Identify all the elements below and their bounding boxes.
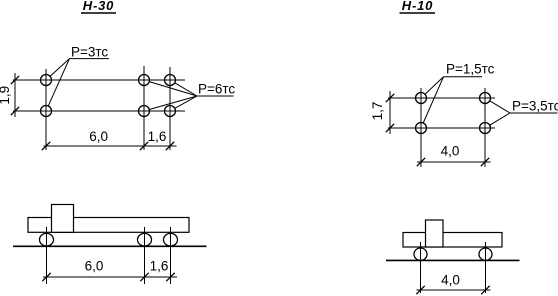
- tick at 46.5,277: [42, 273, 50, 281]
- base dimension line H-10 plan: [417, 161, 491, 163]
- svg-text:6,0: 6,0: [85, 259, 104, 274]
- svg-text:Р=3,5тс: Р=3,5тс: [512, 99, 558, 114]
- front wheel H-30 truck: [40, 233, 54, 246]
- tick at top of 1,7: [386, 94, 394, 102]
- leader label P=1,5tc: [423, 61, 494, 123]
- wheel column line front H-10: [420, 88, 422, 167]
- tick at 485,162: [481, 158, 489, 166]
- wheel circle front-bottom H-10: [416, 123, 427, 134]
- axle line bottom H-30: [13, 110, 185, 112]
- front wheel H-10 truck: [414, 248, 427, 260]
- tick at 144,146: [140, 142, 148, 150]
- base dimension line H-10 truck: [417, 289, 491, 291]
- leader label P=3,5tc: [490, 99, 558, 126]
- truck body H-10: [403, 233, 502, 248]
- tick at 170.5,277: [166, 273, 174, 281]
- svg-text:Р=3тс: Р=3тс: [71, 44, 108, 59]
- svg-text:6,0: 6,0: [89, 129, 108, 144]
- svg-text:Р=1,5тс: Р=1,5тс: [446, 61, 495, 76]
- axle line bottom H-10: [388, 127, 495, 129]
- svg-text:1,6: 1,6: [148, 129, 167, 144]
- axle line top H-30: [13, 79, 185, 81]
- extension line rear wheel H-10 truck: [485, 242, 487, 293]
- leader label P=3tc: [48, 44, 109, 106]
- header H-10: [400, 0, 436, 13]
- svg-text:Н-30: Н-30: [83, 0, 114, 13]
- ground line H-10 truck: [386, 259, 520, 261]
- base dimension line H-30 plan: [44, 145, 177, 147]
- svg-text:4,0: 4,0: [441, 273, 460, 288]
- wheel column line middle H-30: [143, 66, 145, 150]
- tick at 170,146: [166, 142, 174, 150]
- wheel circle rear-bottom H-10: [480, 123, 491, 134]
- rear wheel H-10 truck: [479, 248, 492, 260]
- wheel circle rear-top H-30: [165, 75, 176, 86]
- tick at 485.5,290: [481, 286, 489, 294]
- base dimension line H-30 truck: [43, 276, 177, 278]
- extension line middle wheel H-30 truck: [144, 227, 146, 284]
- tick at 421,162: [417, 158, 425, 166]
- truck body H-30: [28, 218, 189, 233]
- tick at 420.5,290: [416, 286, 424, 294]
- extension line front wheel H-10 truck: [420, 242, 422, 293]
- svg-text:Н-10: Н-10: [402, 0, 433, 13]
- wheel circle rear-top H-10: [480, 93, 491, 104]
- wheel circle middle-top H-30: [139, 75, 150, 86]
- extension line front wheel H-30 truck: [46, 227, 48, 284]
- wheel column line front H-30: [45, 69, 47, 150]
- tick at 144.5,277: [140, 273, 148, 281]
- middle wheel H-30 truck: [138, 233, 152, 246]
- leader label P=6tc: [149, 82, 235, 110]
- truck cab H-30: [52, 205, 74, 233]
- wheel circle rear-bottom H-30: [165, 106, 176, 117]
- svg-text:1,7: 1,7: [370, 102, 385, 121]
- track dimension line 1,7 H-10: [389, 91, 391, 134]
- wheel column line rear H-10: [484, 88, 486, 167]
- svg-text:4,0: 4,0: [441, 144, 460, 159]
- wheel circle front-top H-10: [416, 93, 427, 104]
- tick at 46,146: [42, 142, 50, 150]
- wheel circle front-top H-30: [41, 75, 52, 86]
- wheel column line rear H-30: [169, 67, 171, 150]
- svg-text:1,9: 1,9: [0, 86, 12, 105]
- truck cab H-10: [426, 220, 444, 247]
- tick at bottom of 1,9: [11, 107, 19, 115]
- track dimension line 1,9 H-30: [14, 73, 16, 117]
- svg-text:1,6: 1,6: [150, 259, 169, 274]
- axle line top H-10: [388, 97, 495, 99]
- extension line rear wheel H-30 truck: [170, 227, 172, 284]
- rear wheel H-30 truck: [164, 233, 178, 246]
- header H-30: [81, 0, 116, 13]
- ground line H-30 truck: [13, 245, 207, 247]
- wheel circle front-bottom H-30: [41, 106, 52, 117]
- wheel circle middle-bottom H-30: [139, 106, 150, 117]
- tick at top of 1,9: [11, 76, 19, 84]
- tick at bottom of 1,7: [386, 124, 394, 132]
- svg-text:Р=6тс: Р=6тс: [198, 82, 235, 97]
